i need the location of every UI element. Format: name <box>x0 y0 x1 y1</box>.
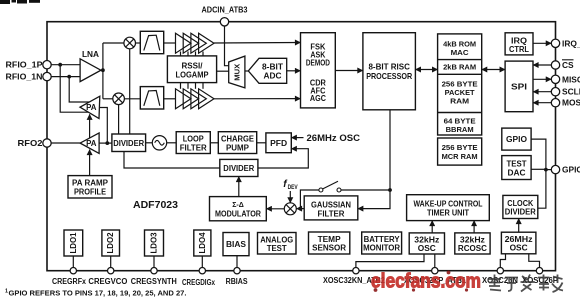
pin CREGSYNTH <box>151 268 157 274</box>
svg-text:CREGRFx: CREGRFx <box>52 277 87 286</box>
wire bottom mixer to IF filter <box>124 98 140 100</box>
switch blade <box>322 181 338 189</box>
wire top amp taps to RSSI <box>181 52 204 56</box>
svg-text:RFIO_1P: RFIO_1P <box>6 60 43 70</box>
amplifier chain bottom <box>176 89 215 109</box>
wire bottom amp taps to RSSI <box>181 83 204 89</box>
pin CREGDIGx <box>199 268 205 274</box>
wire top filter to amps <box>164 42 176 44</box>
wire memory to SPI (bidirectional) <box>482 69 505 71</box>
regulator LDO1 <box>64 230 83 256</box>
svg-text:MISO: MISO <box>562 74 580 84</box>
wire 32kHz rcosc to wakeup <box>473 221 475 233</box>
wire SCLK pin to SPI <box>533 91 551 93</box>
mixer bottom (Q) <box>113 93 125 105</box>
node LNA output junction <box>101 68 105 72</box>
block WAKE-UP CONTROL TIMER UNIT <box>407 195 490 221</box>
svg-text:LDO1: LDO1 <box>69 232 78 254</box>
pin MISO <box>551 75 559 83</box>
wire top amp output to demod <box>214 42 301 45</box>
wire switch left segment <box>300 190 319 209</box>
svg-text:GAUSSIAN: GAUSSIAN <box>311 200 351 209</box>
block TEST DAC <box>502 156 531 180</box>
svg-text:SPI: SPI <box>511 82 527 92</box>
pin MOSI <box>551 99 559 107</box>
svg-text:SENSOR: SENSOR <box>312 244 346 253</box>
svg-text:CREGDIGx: CREGDIGx <box>182 278 216 287</box>
pin ADCIN_ATB3 <box>220 18 228 26</box>
wire divider1 to vco <box>146 142 153 144</box>
svg-text:LDO2: LDO2 <box>106 232 115 254</box>
svg-text:MCR RAM: MCR RAM <box>442 152 478 161</box>
node GPIO junction <box>544 168 548 172</box>
wire RISC to gaussian/switch node <box>389 110 391 190</box>
svg-text:ADC: ADC <box>264 72 282 81</box>
svg-text:PFD: PFD <box>270 139 287 148</box>
wire junction to GPIO pin <box>546 169 551 171</box>
oscillator 26MHz OSC <box>501 232 536 254</box>
pin IRQ <box>551 39 559 47</box>
wire 32kHz osc to XOSC32KP pin <box>434 254 436 268</box>
svg-text:TEMP: TEMP <box>318 235 341 244</box>
pin XOSC32KP_ATB1 <box>432 268 438 274</box>
svg-text:FILTER: FILTER <box>318 210 345 219</box>
svg-text:32kHz: 32kHz <box>414 236 439 245</box>
wire LDO3 to pin <box>153 256 155 268</box>
chip boundary ADF7023 <box>47 22 556 271</box>
block CHARGE PUMP <box>218 132 256 154</box>
block SPI <box>505 61 533 112</box>
wire bottom filter to amps <box>164 98 176 100</box>
wire 26MHz osc to XOSC26P pin <box>529 254 540 268</box>
wire top mixer LO from divider <box>129 49 131 134</box>
wire LNA output <box>101 69 103 71</box>
svg-text:CS: CS <box>562 60 574 70</box>
wire MOSI pin to SPI <box>533 102 551 104</box>
wire RISC to memory (bidirectional) <box>415 69 437 71</box>
pin XOSC32KN_ATB2 <box>353 268 359 274</box>
wire switch right segment <box>341 189 390 191</box>
wire LNA output to mixers <box>102 43 104 99</box>
wire divider1 to PA node <box>99 142 112 144</box>
block CLOCK DIVIDER <box>503 195 538 218</box>
pin RBIAS <box>234 268 240 274</box>
pin SCLK <box>551 88 559 96</box>
wire top mixer to IF filter <box>136 42 141 44</box>
wire IRQ ctrl to pin <box>533 42 551 44</box>
svg-text:256 BYTE: 256 BYTE <box>442 143 478 152</box>
watermark chinese characters <box>488 275 563 293</box>
svg-text:LOGAMP: LOGAMP <box>176 71 209 80</box>
wire GPIO block to pin <box>531 139 546 170</box>
wire 26MHz OSC reference into PFD <box>291 137 303 139</box>
amplifier chain top <box>176 33 215 53</box>
wire RFIO_1N to PA1 upper edge <box>69 77 89 102</box>
switch contact left <box>319 188 323 192</box>
mixer modulation <box>284 203 296 215</box>
svg-text:CREGVCO: CREGVCO <box>88 277 127 286</box>
block 8-BIT RISC PROCESSOR <box>363 33 416 110</box>
svg-text:TEST: TEST <box>267 244 287 253</box>
block sigma-delta MODULATOR <box>210 197 267 221</box>
wire TEST DAC to pin <box>531 168 546 170</box>
wire gaussian output to modulation mixer <box>297 208 305 210</box>
block DIVIDER (fractional-N) <box>220 159 258 176</box>
watermark elecfans.com <box>371 270 481 293</box>
block PA RAMP PROFILE <box>68 176 112 198</box>
filter IF top <box>140 31 163 53</box>
oscillator 32kHz RCOSC <box>455 233 490 254</box>
svg-text:2kB RAM: 2kB RAM <box>443 63 476 72</box>
wire 32kHz osc to wakeup <box>431 221 433 233</box>
oscillator 32kHz OSC <box>409 233 444 254</box>
wire bottom amp output to demod <box>214 98 301 100</box>
amplifier PA1 (upper) <box>80 96 100 118</box>
block TEMP SENSOR <box>309 232 350 254</box>
svg-text:DEV: DEV <box>288 184 299 191</box>
svg-text:DIVIDER: DIVIDER <box>113 139 144 148</box>
svg-text:DEMOD: DEMOD <box>306 58 330 67</box>
wire ramp profile to PA2 <box>89 150 91 176</box>
svg-text:BATTERY: BATTERY <box>364 235 401 244</box>
svg-text:TIMER UNIT: TIMER UNIT <box>427 209 469 218</box>
node gaussian output junction <box>299 207 303 211</box>
wire bottom mixer LO from divider <box>118 105 120 134</box>
svg-text:LOOP: LOOP <box>183 135 205 144</box>
block RSSI/LOGAMP <box>167 56 216 83</box>
svg-text:RAM: RAM <box>450 97 469 106</box>
svg-text:LDO3: LDO3 <box>150 232 159 254</box>
memory 256 BYTE MCR RAM <box>438 138 482 165</box>
node switch junction <box>388 188 392 192</box>
svg-text:Σ-Δ: Σ-Δ <box>232 202 244 209</box>
pin RFIO_1N <box>43 72 51 80</box>
svg-text:BIAS: BIAS <box>226 240 246 249</box>
svg-text:LNA: LNA <box>82 50 99 59</box>
amplifier PA2 (lower) <box>80 133 99 154</box>
cropped header text fragments top-left <box>0 0 40 4</box>
svg-text:CREGSYNTH: CREGSYNTH <box>131 277 177 286</box>
svg-text:PROCESSOR: PROCESSOR <box>366 72 412 81</box>
wire LDO4 to pin <box>201 256 203 268</box>
wire vco to loop filter <box>167 142 177 144</box>
svg-text:GPIO: GPIO <box>506 135 527 144</box>
wire RFIO_1P to PA1 lower edge <box>60 65 88 113</box>
wire RFIO_1P to LNA <box>51 64 80 66</box>
wire SPI to MISO pin <box>533 78 551 80</box>
svg-text:WAKE-UP CONTROL: WAKE-UP CONTROL <box>414 199 483 208</box>
wire CLOCK DIVIDER to pin <box>538 170 546 209</box>
wire LDO2 to pin <box>110 256 112 268</box>
label fDEV <box>283 179 298 191</box>
svg-text:AGC: AGC <box>310 94 326 103</box>
svg-text:PUMP: PUMP <box>226 144 250 153</box>
svg-text:GPIO: GPIO <box>562 165 580 175</box>
svg-text:PROFILE: PROFILE <box>74 187 107 196</box>
wire node to PA1 input <box>99 108 107 144</box>
svg-text:GPIO REFERS TO PINS 17, 18, 19: GPIO REFERS TO PINS 17, 18, 19, 20, 25, … <box>9 289 187 298</box>
regulator LDO4 <box>194 230 211 256</box>
svg-text:RCOSC: RCOSC <box>458 244 487 253</box>
svg-text:TEST: TEST <box>507 160 527 169</box>
wire BIAS to pin <box>236 256 238 268</box>
regulator LDO2 <box>102 230 120 256</box>
wire RFIO_1N to LNA <box>51 76 80 78</box>
block ANALOG TEST <box>258 233 297 255</box>
svg-text:MUX: MUX <box>233 64 242 81</box>
mux MUX <box>229 56 245 88</box>
svg-text:RFO2: RFO2 <box>18 138 43 148</box>
svg-text:OSC: OSC <box>510 244 528 253</box>
svg-text:RSSI/: RSSI/ <box>182 62 204 71</box>
svg-text:IRQ_GP: IRQ_GP <box>562 38 580 48</box>
svg-text:RBIAS: RBIAS <box>226 277 248 286</box>
node RFIO_1N junction <box>67 75 71 79</box>
svg-text:DAC: DAC <box>508 168 526 177</box>
pin CREGRFx <box>70 268 76 274</box>
block DIVIDER (LO) <box>112 134 146 152</box>
svg-text:32kHz: 32kHz <box>460 236 485 245</box>
wire MUX to ADC <box>245 70 248 72</box>
wire fDEV into mixer <box>289 191 291 203</box>
wire mixer to sigma-delta modulator <box>266 208 284 210</box>
node RFIO_1P junction <box>58 63 62 67</box>
amplifier LNA <box>80 59 101 82</box>
svg-text:elecfans.com: elecfans.com <box>371 270 481 293</box>
block BIAS <box>223 233 249 256</box>
svg-text:RFIO_1N: RFIO_1N <box>6 72 43 82</box>
wire LDO1 to pin <box>72 256 74 268</box>
svg-text:8-BIT RISC: 8-BIT RISC <box>368 63 410 72</box>
svg-text:CLOCK: CLOCK <box>507 199 533 208</box>
block GAUSSIAN FILTER <box>304 196 358 220</box>
block PFD <box>266 133 291 153</box>
vco oscillator symbol <box>152 136 166 150</box>
wire 26MHz osc to XOSC26N pin <box>500 254 505 268</box>
svg-text:MAC: MAC <box>451 48 469 57</box>
svg-text:MODULATOR: MODULATOR <box>215 210 261 219</box>
wire RFO2 to PA2 <box>51 142 80 144</box>
node PA input junction <box>105 141 109 145</box>
block BATTERY MONITOR <box>362 232 402 254</box>
wire demod to RISC <box>335 70 363 72</box>
pin RFIO_1P <box>43 60 51 68</box>
svg-text:ANALOG: ANALOG <box>260 235 293 244</box>
block FSK ASK DEMOD / CDR AFC AGC <box>301 33 336 108</box>
svg-text:MONITOR: MONITOR <box>363 244 400 253</box>
wire to bottom mixer <box>103 98 113 100</box>
wire node down to gaussian input <box>358 190 390 209</box>
svg-text:CHARGE: CHARGE <box>221 135 255 144</box>
wire ramp to PA1 <box>89 114 91 138</box>
wire 26MHz osc to clock divider <box>518 219 520 233</box>
wire 32kHz osc to XOSC32KN pin <box>356 254 424 268</box>
pin GPIO <box>551 165 559 173</box>
wire loop filter to charge pump <box>210 142 218 144</box>
regulator LDO3 <box>145 230 164 256</box>
pin CS label with overline <box>562 60 574 70</box>
svg-text:CTRL: CTRL <box>509 45 529 54</box>
svg-text:26MHz OSC: 26MHz OSC <box>307 133 361 143</box>
pin CS <box>551 61 559 69</box>
svg-text:PA RAMP: PA RAMP <box>72 178 109 187</box>
svg-text:DIVIDER: DIVIDER <box>505 208 536 217</box>
memory 4kB ROM MAC / 2kB RAM / 256 BYTE PACKET RAM / 64 BYTE BBRAM <box>438 34 482 135</box>
pin RFO2 <box>43 139 51 147</box>
pin CREGVCO <box>108 268 114 274</box>
pin XOSC26N <box>497 268 503 274</box>
wire RSSI to MUX <box>217 70 229 72</box>
mixer top (I) <box>124 37 136 49</box>
svg-text:PA: PA <box>86 139 97 148</box>
svg-text:26MHz: 26MHz <box>505 235 533 244</box>
wire modulator to divider2 <box>238 177 240 197</box>
svg-text:FILTER: FILTER <box>180 144 207 153</box>
svg-text:8-BIT: 8-BIT <box>262 62 283 71</box>
svg-text:SCLK: SCLK <box>562 87 580 97</box>
wire divider2 feedback to PFD <box>258 149 308 168</box>
footnote GPIO pins <box>5 289 187 298</box>
filter IF bottom <box>140 87 163 109</box>
wire to top mixer <box>103 42 124 44</box>
wire ADCIN_ATB3 to MUX <box>225 26 229 66</box>
block GPIO <box>502 128 531 150</box>
svg-text:PA: PA <box>86 103 97 112</box>
svg-text:DIVIDER: DIVIDER <box>223 164 254 173</box>
wire ADC to demod <box>287 70 301 72</box>
wire divider1 bottom to divider2 <box>124 152 220 169</box>
svg-text:MOSI: MOSI <box>562 98 580 108</box>
svg-text:ADF7023: ADF7023 <box>133 200 179 211</box>
svg-text:ADCIN_ATB3: ADCIN_ATB3 <box>202 5 248 15</box>
pin XOSC26P <box>536 268 542 274</box>
adc 8-BIT ADC <box>248 58 286 83</box>
block LOOP FILTER <box>176 132 210 154</box>
svg-text:LDO4: LDO4 <box>198 232 207 254</box>
svg-text:BBRAM: BBRAM <box>446 125 474 134</box>
block IRQ CTRL <box>505 33 533 55</box>
wire charge pump to PFD <box>257 142 266 144</box>
switch contact right <box>337 188 341 192</box>
svg-text:OSC: OSC <box>418 244 436 253</box>
wire CS pin to SPI <box>533 64 551 66</box>
